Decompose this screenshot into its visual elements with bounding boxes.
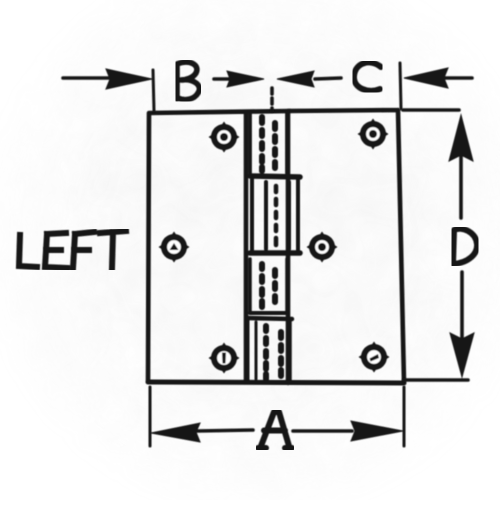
- label D: [453, 229, 477, 264]
- label B: [177, 62, 199, 99]
- wire: vertical D dimension line upper: [459, 130, 463, 218]
- extension line bottom-right corner: [403, 387, 406, 446]
- wire: right A dimension line: [293, 429, 352, 433]
- arrowhead pointing left at center: [277, 71, 314, 87]
- extension line top-right corner: [403, 108, 459, 112]
- arrowhead pointing down: [450, 333, 474, 377]
- screw hole bottom-right: [359, 342, 390, 373]
- knuckle segment 1 (top): [250, 112, 287, 173]
- screw hole mid-left: [159, 232, 190, 263]
- screw hole top-right: [358, 119, 389, 150]
- screw holes: [159, 119, 390, 374]
- wire: left A dimension line: [197, 430, 253, 431]
- center extension line: [270, 88, 274, 111]
- extension line at hinge right edge: [400, 63, 401, 109]
- wire: dash between B and center arrow: [214, 77, 231, 81]
- extension line bottom-right corner: [404, 378, 468, 382]
- dimension A line (bottom): [150, 387, 404, 446]
- dimension B/C line (top): [63, 63, 472, 111]
- arrowhead pointing right at center: [227, 71, 264, 87]
- screw hole bottom-left: [209, 343, 240, 374]
- label A: [258, 412, 292, 448]
- hinge bottom edge: [148, 382, 404, 383]
- arrowhead pointing up: [449, 115, 473, 161]
- knuckle segment 2 (middle, offset): [250, 176, 300, 253]
- knuckle segment 3: [250, 259, 288, 313]
- wire: vertical D dimension line lower: [460, 272, 464, 370]
- wire: top-left leader line: [63, 76, 110, 80]
- wire: dash between center arrow and C: [315, 78, 341, 79]
- screw hole top-left: [209, 122, 240, 153]
- label LEFT: [19, 231, 126, 268]
- extension line bottom-left corner: [149, 387, 152, 446]
- arrowhead pointing left at right edge: [404, 68, 448, 88]
- arrowhead pointing left: [151, 423, 200, 442]
- hinge right leaf plate: [288, 110, 404, 383]
- hinge left leaf plate: [148, 111, 290, 382]
- dimension D line (right): [403, 110, 474, 380]
- knuckle segment 4 (bottom): [248, 318, 292, 381]
- wire: top-right leader line: [445, 76, 472, 80]
- arrowhead pointing right: [351, 421, 403, 441]
- arrowhead pointing right at left edge: [106, 69, 152, 89]
- extension line at hinge left edge: [153, 70, 154, 111]
- screw hole mid-right: [307, 232, 338, 263]
- label C: [354, 62, 381, 90]
